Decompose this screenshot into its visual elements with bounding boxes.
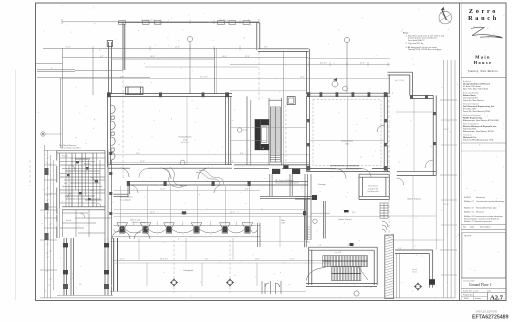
svg-text:Santa Fe, New Mexico 87505: Santa Fe, New Mexico 87505 <box>463 110 491 113</box>
great stair upper flight <box>323 256 368 267</box>
svg-text:15'-0": 15'-0" <box>300 77 305 79</box>
dining east wall <box>226 96 229 164</box>
svg-text:Dining Room: Dining Room <box>179 137 192 139</box>
living door arcs east <box>336 125 384 179</box>
svg-text:a4.1 / 1.03: a4.1 / 1.03 <box>395 80 404 82</box>
long dimension line y48 <box>43 47 257 49</box>
svg-text:15'-4": 15'-4" <box>150 212 155 214</box>
SE compass symbol <box>414 282 423 291</box>
svg-text:7'-3": 7'-3" <box>318 245 322 247</box>
svg-text:Bar: Bar <box>281 219 285 222</box>
svg-text:505-471-4355 Albuquerque, N.M: 505-471-4355 Albuquerque, N.M. <box>463 138 494 141</box>
dining south door swings <box>120 168 209 179</box>
right margin ticks and rotated text <box>441 120 457 275</box>
scattered dimension ticks/text <box>136 56 404 261</box>
svg-text:New York, New York 10022: New York, New York 10022 <box>463 87 489 90</box>
svg-text:Kitchen: Kitchen <box>84 163 90 166</box>
svg-text:Zorro: Zorro <box>469 8 498 15</box>
svg-text:21'-2": 21'-2" <box>290 259 295 261</box>
svg-text:to courtyard: to courtyard <box>120 198 131 201</box>
svg-text:Two Story Structure: Two Story Structure <box>59 144 77 147</box>
west wing small arcs <box>68 165 102 218</box>
svg-text:6'-1": 6'-1" <box>120 77 124 79</box>
svg-text:9'-4": 9'-4" <box>205 259 209 261</box>
colonnade east return wall <box>258 223 260 247</box>
living north wall <box>307 93 391 96</box>
right margin dimension verticals <box>440 60 457 298</box>
living ceiling dashed <box>313 100 381 166</box>
svg-text:14'-6": 14'-6" <box>222 56 227 58</box>
grid bubble W <box>41 132 62 136</box>
loggia south wall (stepped) <box>114 182 309 197</box>
north bay window <box>126 87 144 95</box>
living west wall <box>307 96 310 171</box>
svg-text:Ground Floor 1: Ground Floor 1 <box>469 283 492 287</box>
hall west wall <box>231 96 247 164</box>
guest terrace interior dims <box>390 98 444 250</box>
svg-text:Bulletin #6 Construction revis: Bulletin #6 Construction revision drawin… <box>464 215 503 218</box>
svg-text:Passage: Passage <box>318 184 327 186</box>
small fixtures noise <box>67 161 98 200</box>
svg-text:Associate Architect: Associate Architect <box>463 91 479 94</box>
svg-text:12'-8": 12'-8" <box>140 161 145 163</box>
living interior dims <box>310 140 384 142</box>
circle symbol below stair <box>354 291 359 296</box>
svg-text:Revision: Revision <box>476 212 485 214</box>
svg-text:See detail 4/A7.2: See detail 4/A7.2 <box>408 39 425 42</box>
keyed notes text block <box>403 33 445 51</box>
hall dashed grid <box>285 105 287 164</box>
svg-text:Guest: Guest <box>412 268 418 271</box>
svg-text:5'-9": 5'-9" <box>245 189 249 191</box>
loggia pilasters <box>127 181 251 186</box>
svg-text:6'-6": 6'-6" <box>240 153 244 155</box>
living east wall <box>384 93 387 171</box>
sheet number box <box>463 294 481 300</box>
top dimension string <box>62 19 259 24</box>
svg-text:MSTA_BY_EDITORS: MSTA_BY_EDITORS <box>476 311 497 314</box>
svg-text:Stanley, New Mexico: Stanley, New Mexico <box>468 70 498 73</box>
svg-text:up 17R: up 17R <box>335 252 342 254</box>
svg-text:18'-3" 9'-6": 18'-3" 9'-6" <box>219 20 229 22</box>
stair hall walls <box>269 51 283 164</box>
svg-text:11'-6": 11'-6" <box>120 259 125 261</box>
svg-text:6'-2 1/2": 6'-2 1/2" <box>320 63 327 65</box>
svg-text:19'-6": 19'-6" <box>150 56 155 58</box>
svg-text:Drawn: Drawn <box>475 298 481 300</box>
title block: building name <box>468 54 498 73</box>
svg-text:4/14/97: 4/14/97 <box>464 197 472 199</box>
top margin extra ticks <box>93 20 257 51</box>
west wall niches <box>111 105 115 160</box>
svg-text:Structural Engineer: Structural Engineer <box>463 103 480 106</box>
svg-text:Pantry: Pantry <box>62 155 68 158</box>
dining interior dim lines <box>110 154 310 156</box>
svg-text:12'-4": 12'-4" <box>66 47 71 49</box>
svg-text:Revised plans, sections and de: Revised plans, sections and details for <box>464 218 500 221</box>
living wall pilaster marks <box>307 119 387 171</box>
svg-text:Room: Room <box>412 272 417 274</box>
svg-text:4'-0": 4'-0" <box>398 248 402 250</box>
title block: project name <box>468 8 499 22</box>
svg-text:Architect: Architect <box>463 80 471 83</box>
svg-text:Mechanical Engineer: Mechanical Engineer <box>463 114 481 117</box>
svg-text:Living Room: Living Room <box>341 141 353 143</box>
svg-text:main House: main House <box>368 186 378 188</box>
svg-text:Albuquerque, New Mexico 87109-: Albuquerque, New Mexico 87109-4365 <box>463 119 500 122</box>
svg-text:No.: No. <box>463 227 467 229</box>
east small stair <box>380 203 388 218</box>
svg-text:Bulletin #3: Bulletin #3 <box>464 207 475 210</box>
courtyard dashed verticals <box>174 240 230 293</box>
north wall east segment (thick) <box>257 23 260 51</box>
dining south wall <box>108 165 233 169</box>
stair quarter arc left <box>307 268 326 281</box>
fireplace west wall line <box>250 100 252 165</box>
svg-text:Main entrance: Main entrance <box>120 196 134 199</box>
svg-text:Construction revision/drawings: Construction revision/drawings <box>476 200 504 203</box>
svg-text:2. Lily pond 18" dp: 2. Lily pond 18" dp <box>406 43 424 45</box>
svg-text:w/ stone columns: w/ stone columns <box>132 221 147 224</box>
svg-text:Bulletin #5: Bulletin #5 <box>464 211 475 214</box>
svg-text:31'-6": 31'-6" <box>444 129 449 131</box>
svg-text:A2.7: A2.7 <box>490 294 504 301</box>
revision table <box>464 197 504 223</box>
svg-text:NOTES: NOTES <box>464 236 472 238</box>
living south wall <box>307 169 391 172</box>
svg-text:Main: Main <box>475 54 491 59</box>
courtyard SE corner arches <box>79 281 281 294</box>
title block left edge <box>459 3 461 301</box>
west wing tiny text <box>62 155 94 223</box>
dimension line y67 <box>145 66 258 68</box>
great stair lower flight <box>332 267 361 281</box>
small text under jambs <box>276 179 299 184</box>
svg-text:see A2.8 for: see A2.8 for <box>368 187 378 190</box>
svg-text:Revisions: Revisions <box>476 197 485 199</box>
svg-text:Electrical Engineer: Electrical Engineer <box>463 122 479 125</box>
drawing title row <box>461 277 506 279</box>
north garden wall <box>118 21 259 70</box>
courtyard dim rows <box>114 259 331 261</box>
stair hall walls <box>306 247 377 286</box>
east hatched wall band <box>385 234 394 299</box>
entrance text upper <box>58 175 59 177</box>
living room label <box>341 141 353 146</box>
serpentine steps <box>166 167 224 187</box>
svg-text:Ranch: Ranch <box>468 15 499 22</box>
Z signature logo <box>471 27 503 38</box>
curved stair arcs <box>382 221 388 233</box>
dining north wall <box>108 94 233 97</box>
svg-text:14' cl. ht.: 14' cl. ht. <box>181 141 189 144</box>
consultant address blocks <box>463 80 500 141</box>
svg-text:Brand W 2nd via Wall 2178: Brand W 2nd via Wall 2178 <box>276 181 299 184</box>
long dimension line y57.5 <box>62 57 308 59</box>
svg-text:Guest Terrace: Guest Terrace <box>407 198 421 201</box>
left wall fragments <box>45 168 49 240</box>
svg-text:31'-2 1/2": 31'-2 1/2" <box>200 77 208 79</box>
dim rows <box>114 189 261 191</box>
svg-text:Not in contract see A5.1: Not in contract see A5.1 <box>61 147 81 150</box>
svg-text:9'-0": 9'-0" <box>136 153 140 155</box>
grid bubble B + callouts <box>332 37 350 93</box>
svg-text:Contractor: Contractor <box>463 133 472 136</box>
main entrance arches <box>112 231 150 239</box>
dining room name <box>179 137 192 145</box>
lines right of hatch band <box>397 254 400 298</box>
loggia connector verticals <box>121 186 281 286</box>
long dimension line y78 across plan <box>60 77 390 79</box>
svg-text:Courtyard: Courtyard <box>183 269 193 272</box>
svg-text:21'-8": 21'-8" <box>360 63 365 65</box>
svg-text:Bulletin #1: Bulletin #1 <box>464 200 475 203</box>
courtyard center symbols <box>170 278 235 287</box>
left margin stubs <box>44 151 57 229</box>
dimension line y64 <box>230 63 390 65</box>
fireplace mass <box>255 120 269 150</box>
courtyard west wall <box>114 238 118 292</box>
elevator shaft <box>287 97 295 105</box>
left margin dim lines <box>36 48 150 95</box>
svg-text:2nd floor plan: 2nd floor plan <box>367 190 378 193</box>
dashed grid verticals <box>123 52 389 245</box>
divider under building name <box>461 77 506 79</box>
bar rooms <box>260 174 311 240</box>
grid bubble A <box>187 36 192 94</box>
north compass symbol <box>439 7 452 24</box>
svg-text:12'-2": 12'-2" <box>230 212 235 214</box>
dining north wall pilasters <box>107 92 229 97</box>
svg-text:10'-3": 10'-3" <box>160 189 165 191</box>
svg-text:EFTA62725489: EFTA62725489 <box>472 314 509 320</box>
scattered dimension texts 2 <box>46 47 449 274</box>
svg-text:House: House <box>474 60 493 65</box>
guest wing door arcs <box>397 160 433 185</box>
svg-text:11'-0": 11'-0" <box>245 56 250 58</box>
svg-text:24'-6 1/2" 12'-0": 24'-6 1/2" 12'-0" <box>141 20 155 22</box>
hall dim lines <box>230 91 306 141</box>
svg-text:Guest Terrace: Guest Terrace <box>338 218 352 221</box>
svg-text:Description: Description <box>480 226 491 229</box>
svg-text:27'-0": 27'-0" <box>444 204 449 206</box>
left margin dimension verticals <box>40 145 57 298</box>
scan fold artifact <box>15 70 17 300</box>
svg-text:6'-0": 6'-0" <box>230 161 234 163</box>
west wing extra partitions <box>57 78 111 238</box>
svg-text:Keys:: Keys: <box>403 33 409 35</box>
svg-text:Bulletin #7 General expansion: Bulletin #7 General expansion <box>464 220 493 223</box>
grand stair (north) <box>270 107 280 162</box>
dark door jambs <box>272 169 280 174</box>
svg-text:36'-8 1/2": 36'-8 1/2" <box>160 259 168 261</box>
hall south wall <box>234 165 310 168</box>
west wing room grid (kitchen cluster) <box>57 151 112 239</box>
left margin wall stubs upper <box>37 70 75 72</box>
svg-text:Stor: Stor <box>90 189 94 192</box>
svg-text:14'-0": 14'-0" <box>255 259 260 261</box>
svg-text:8'-6": 8'-6" <box>352 212 356 214</box>
svg-text:Albuquerque, New Mexico 87108: Albuquerque, New Mexico 87108 <box>463 130 494 133</box>
loggia center dark mark <box>182 211 186 214</box>
living north pilasters <box>307 92 387 97</box>
svg-text:22'-0": 22'-0" <box>175 47 180 49</box>
svg-text:9'-8": 9'-8" <box>264 47 268 49</box>
notes box <box>462 233 506 279</box>
svg-text:Hall: Hall <box>64 183 68 185</box>
svg-text:Revised/Drill floor plan: Revised/Drill floor plan <box>476 207 498 210</box>
svg-text:Stanley, N.M. 87056 See civil: Stanley, N.M. 87056 See civil dwgs <box>408 48 441 51</box>
loggia grid bubble <box>180 160 185 165</box>
svg-text:8'-2": 8'-2" <box>100 56 104 58</box>
west arcade columns <box>64 238 112 295</box>
garden west wall <box>109 42 112 94</box>
extra interior door arcs <box>130 168 371 193</box>
svg-text:Santa Fe, New Mexico: Santa Fe, New Mexico <box>463 99 485 102</box>
svg-text:Scale 1/4" = 1'-0": Scale 1/4" = 1'-0" <box>463 290 479 292</box>
dining west wall <box>108 94 111 167</box>
svg-text:Project No.: Project No. <box>463 294 473 297</box>
